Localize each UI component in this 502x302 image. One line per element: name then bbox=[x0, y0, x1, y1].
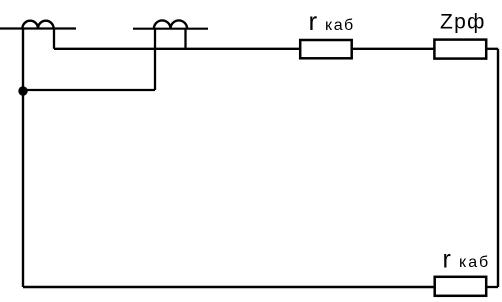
wire right vertical bbox=[497, 49, 499, 287]
wire top horizontal bbox=[54, 48, 300, 50]
transformer TA2 winding arcs bbox=[154, 20, 187, 28]
svg-text:Zрф: Zрф bbox=[440, 10, 486, 33]
resistor R1 (r каб top) bbox=[300, 40, 352, 58]
svg-text:r: r bbox=[443, 245, 451, 273]
transformer TA1 primary line bbox=[0, 27, 76, 29]
transformer TA2 primary line bbox=[133, 28, 208, 30]
wire R2 to right vertical bbox=[486, 286, 498, 288]
wire junction horizontal bbox=[23, 89, 155, 91]
wire bottom horizontal bbox=[23, 286, 434, 289]
resistor R2 (r каб bottom) bbox=[435, 277, 487, 296]
impedance Zрф box bbox=[434, 40, 486, 59]
wire TA2 left tap bbox=[154, 29, 156, 90]
wire between R1 and Zрф bbox=[352, 48, 434, 50]
wire Zрф to right vertical bbox=[486, 48, 498, 50]
svg-text:каб: каб bbox=[459, 254, 490, 271]
wire TA2 right tap bbox=[184, 29, 186, 49]
wire TA1 left tap / left vertical bbox=[22, 29, 24, 288]
transformer TA1 winding arcs bbox=[22, 21, 53, 29]
svg-text:каб: каб bbox=[325, 17, 355, 34]
svg-text:r: r bbox=[309, 6, 318, 36]
wire TA1 right tap bbox=[53, 29, 55, 49]
node junction dot bbox=[18, 86, 27, 95]
